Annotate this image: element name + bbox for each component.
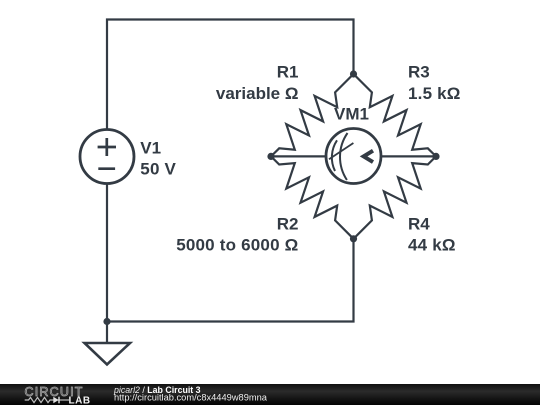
node left <box>267 153 274 160</box>
svg-text:V1: V1 <box>140 139 161 158</box>
node top <box>350 70 357 77</box>
svg-text:44 kΩ: 44 kΩ <box>408 236 456 255</box>
label R1 variable <box>216 63 299 103</box>
label VM1 <box>334 104 369 123</box>
svg-text:50 V: 50 V <box>140 160 176 179</box>
svg-text:R1: R1 <box>277 63 299 82</box>
wire voltmeter left <box>271 155 326 157</box>
svg-text:R3: R3 <box>408 63 430 82</box>
label R2 value <box>176 215 298 255</box>
wire top from V1 to bridge top <box>107 20 354 130</box>
svg-text:VM1: VM1 <box>334 104 369 123</box>
svg-text:R4: R4 <box>408 215 430 234</box>
wire bottom from junction to bridge bottom <box>107 239 354 322</box>
wire ground stem <box>106 322 108 344</box>
node right <box>432 153 439 160</box>
label R4 value <box>408 215 456 255</box>
label R3 value <box>408 63 461 103</box>
resistor R1 <box>271 74 354 156</box>
logo CircuitLab <box>25 385 91 405</box>
resistor R4 <box>354 156 437 238</box>
svg-text:LAB: LAB <box>69 396 91 405</box>
wire voltmeter right <box>381 155 436 157</box>
node bottom <box>350 235 357 242</box>
resistor R2 <box>271 156 354 238</box>
ground <box>85 343 131 365</box>
wire V1 bottom to junction <box>106 184 108 322</box>
voltage source V1 <box>80 130 134 184</box>
svg-text:R2: R2 <box>277 215 299 234</box>
node ground junction <box>103 318 110 325</box>
svg-text:http://circuitlab.com/c8x4449w: http://circuitlab.com/c8x4449w89mna <box>114 393 268 403</box>
resistor R3 <box>354 74 437 156</box>
footer text <box>113 385 268 403</box>
voltmeter VM1 <box>326 129 381 184</box>
svg-text:5000 to 6000 Ω: 5000 to 6000 Ω <box>176 236 298 255</box>
svg-text:variable Ω: variable Ω <box>216 84 299 103</box>
label V1 value <box>140 139 176 179</box>
svg-text:1.5 kΩ: 1.5 kΩ <box>408 84 461 103</box>
